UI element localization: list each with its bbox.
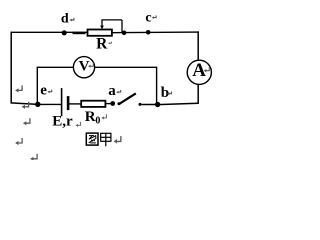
svg-text:e: e xyxy=(40,83,47,99)
svg-text:d: d xyxy=(61,12,69,27)
svg-text:R: R xyxy=(85,109,96,125)
svg-text:R: R xyxy=(96,36,108,53)
svg-text:c: c xyxy=(145,10,151,25)
svg-text:V: V xyxy=(79,58,90,74)
svg-text:a: a xyxy=(108,83,116,99)
svg-text:b: b xyxy=(161,85,169,101)
svg-text:A: A xyxy=(192,60,206,81)
svg-text:E,r: E,r xyxy=(52,113,73,129)
svg-text:0: 0 xyxy=(95,115,100,126)
